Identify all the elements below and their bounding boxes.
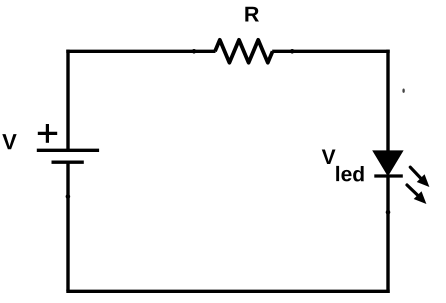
svg-text:V: V (322, 146, 336, 169)
svg-text:led: led (335, 163, 365, 186)
svg-text:R: R (244, 2, 260, 26)
svg-text:V: V (2, 129, 17, 154)
